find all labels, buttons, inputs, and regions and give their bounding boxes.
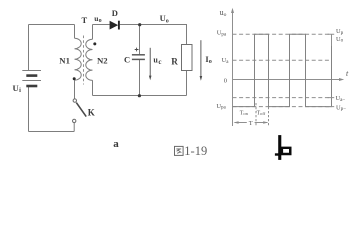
wire top-left horizontal	[29, 24, 75, 26]
resistor R box	[182, 45, 193, 71]
svg-text:N2: N2	[97, 56, 108, 66]
wire switch bottom stub	[73, 123, 75, 132]
svg-text:Upa: Upa	[216, 103, 226, 111]
wire N2 bottom stub	[92, 80, 94, 95]
dashed level Ua	[233, 59, 331, 61]
N1 polarity dot	[73, 77, 76, 80]
waveform text labels	[216, 8, 349, 127]
svg-text:Upa: Upa	[217, 30, 227, 38]
dimension extension dashed verticals	[255, 103, 257, 127]
svg-text:N1: N1	[59, 56, 70, 66]
transformer core	[83, 36, 85, 85]
diode D	[110, 21, 119, 30]
wire R bottom stub	[186, 71, 188, 96]
capacitor plus sign	[135, 48, 139, 52]
svg-text:Io: Io	[205, 54, 211, 65]
N2 polarity dot	[93, 42, 96, 45]
transformer N2 winding	[86, 39, 93, 80]
svg-text:T: T	[82, 15, 88, 25]
text labels circuit	[13, 8, 212, 150]
dashed level Ua-	[233, 97, 331, 99]
wire diode to R corner	[120, 25, 187, 45]
caption 图1-19	[175, 146, 184, 155]
svg-text:Up: Up	[336, 28, 344, 36]
wire primary bottom rail	[29, 131, 75, 133]
svg-text:Ua: Ua	[222, 57, 230, 65]
svg-text:Ton: Ton	[240, 110, 249, 116]
wire N1 top stub	[74, 25, 76, 39]
svg-text:0: 0	[224, 77, 227, 84]
arrow Io	[200, 40, 202, 77]
svg-text:Ui: Ui	[13, 83, 22, 94]
svg-text:T: T	[249, 120, 253, 127]
T arrow heads	[234, 121, 239, 124]
wire N1 bottom stub	[74, 80, 76, 99]
svg-text:Ua−: Ua−	[336, 95, 346, 103]
svg-text:R: R	[171, 57, 178, 67]
waveform vertical axis	[232, 12, 234, 127]
battery Ui	[22, 71, 41, 87]
svg-text:K: K	[88, 108, 95, 118]
svg-text:uo: uo	[94, 14, 101, 24]
dashed level Up top	[233, 33, 331, 35]
black flat-sign glyph	[275, 135, 292, 160]
right end ticks	[326, 34, 334, 106]
svg-text:Uo: Uo	[160, 13, 169, 24]
wire left vertical lower	[28, 86, 30, 132]
svg-text:uo: uo	[220, 8, 227, 18]
waveform square wave	[233, 34, 332, 106]
wire capacitor lower stub	[139, 60, 141, 96]
waveform horizontal axis	[233, 79, 342, 81]
dashed level Up- bottom	[233, 106, 332, 108]
svg-text:Up−: Up−	[336, 104, 346, 112]
wire N2 top stub	[92, 25, 94, 40]
capacitor C plates	[132, 54, 145, 56]
svg-text:uc: uc	[153, 55, 161, 65]
transformer N1 winding	[75, 38, 82, 80]
node junction bottom at capacitor branch	[138, 94, 141, 97]
wire capacitor upper stub	[139, 25, 141, 55]
T dimension arrow	[235, 122, 268, 124]
svg-text:D: D	[112, 8, 118, 18]
switch K lever	[76, 103, 86, 117]
arrow uc	[149, 48, 151, 77]
svg-text:C: C	[124, 55, 130, 65]
wire secondary bottom rail	[93, 95, 187, 97]
svg-text:Uo: Uo	[336, 36, 344, 44]
svg-text:t: t	[346, 69, 349, 78]
svg-text:Toff: Toff	[257, 110, 266, 116]
axis arrowheads	[231, 8, 234, 13]
wire secondary top	[93, 24, 110, 26]
switch K bottom terminal	[73, 119, 76, 122]
svg-text:1-19: 1-19	[184, 144, 207, 158]
switch K top terminal	[73, 99, 76, 102]
wire left vertical upper	[28, 25, 30, 71]
svg-text:a: a	[113, 138, 119, 150]
node junction top at capacitor branch	[138, 23, 141, 26]
